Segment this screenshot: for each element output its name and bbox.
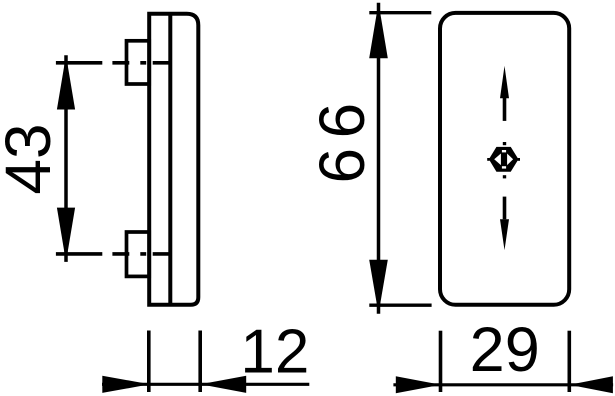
dimension 43: dimension line [64, 55, 68, 262]
svg-text:12: 12 [240, 318, 309, 387]
dimension 29: right arrowhead [569, 376, 613, 393]
svg-text:29: 29 [470, 315, 540, 385]
side view: inner edge line [168, 14, 172, 305]
side view: bottom fixing tab [127, 232, 150, 276]
dimension 66: bottom extension line [369, 304, 431, 307]
dimension 66: top extension line [369, 11, 431, 14]
svg-text:66: 66 [306, 93, 378, 183]
svg-text:43: 43 [0, 123, 64, 194]
front view: horizontal center line dash right of hexagon [518, 158, 520, 161]
dimension 43: bottom arrowhead [57, 208, 75, 262]
front view: vertical center line dash below hexagon [503, 175, 506, 178]
dimension 43: top arrowhead [57, 55, 75, 109]
center line through bottom tab [56, 252, 170, 256]
dimension 29: left extension line [439, 331, 443, 392]
dimension 12: dimension line [102, 383, 309, 386]
dimension 12: left extension line [147, 331, 151, 393]
front view: up adjustment arrow [503, 98, 507, 121]
front view: vertical center line dash above hexagon [503, 142, 506, 145]
dimension 29: right extension line [567, 331, 571, 392]
dimension 12: right arrowhead [200, 376, 246, 393]
front view: down adjustment arrow [503, 197, 507, 220]
dimension 66: top arrowhead [369, 3, 388, 59]
side view: body outline [149, 14, 198, 305]
side view: top fixing tab [127, 41, 150, 84]
front view: rounded plate outline [440, 13, 569, 305]
dimension 29: left arrowhead [396, 376, 441, 393]
dimension 66: dimension line [377, 3, 381, 314]
dimension 66: bottom arrowhead [369, 260, 388, 314]
front view: horizontal center line dash left of hexagon [487, 158, 489, 161]
dimension 12: right extension line [198, 331, 202, 393]
center line through top tab [56, 61, 170, 65]
front view: spindle hexagon symbol [490, 148, 518, 171]
dimension 29: dimension line [393, 383, 613, 386]
dimension 12: left arrowhead [102, 376, 150, 393]
